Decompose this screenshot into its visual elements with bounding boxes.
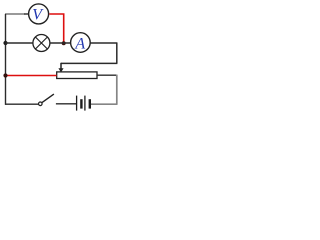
battery bbox=[77, 96, 90, 111]
lamp bbox=[33, 35, 50, 52]
wire battery to switch bbox=[56, 103, 76, 105]
wire lamp to ammeter bbox=[50, 42, 70, 44]
svg-text:A: A bbox=[74, 36, 85, 53]
node junction left wire / lamp row bbox=[3, 41, 7, 45]
wire left vertical bbox=[5, 14, 7, 105]
wire rheostat right bbox=[97, 74, 117, 76]
wire red: left wire to rheostat bbox=[6, 75, 57, 77]
voltmeter bbox=[29, 4, 49, 24]
wire ammeter to right corner bbox=[90, 42, 117, 44]
node junction left wire / red branch bbox=[3, 73, 7, 77]
rheostat body bbox=[57, 72, 97, 79]
wire lamp row left bbox=[6, 42, 33, 44]
wire red: voltmeter to junction bbox=[49, 14, 63, 43]
wire bottom right (gray) bbox=[91, 103, 118, 105]
node junction red/black at lamp-ammeter wire bbox=[62, 41, 66, 45]
rheostat wiper arrow bbox=[58, 63, 63, 73]
wire right vertical upper bbox=[116, 42, 118, 63]
wire bottom left bbox=[5, 103, 39, 105]
wire top-left horizontal (dark part) bbox=[24, 13, 28, 15]
switch bbox=[39, 94, 54, 106]
wire wiper horizontal bbox=[61, 62, 117, 64]
wire right vertical lower (gray) bbox=[116, 75, 118, 105]
wire top-left horizontal (gray part) bbox=[5, 13, 25, 15]
ammeter bbox=[71, 33, 91, 53]
